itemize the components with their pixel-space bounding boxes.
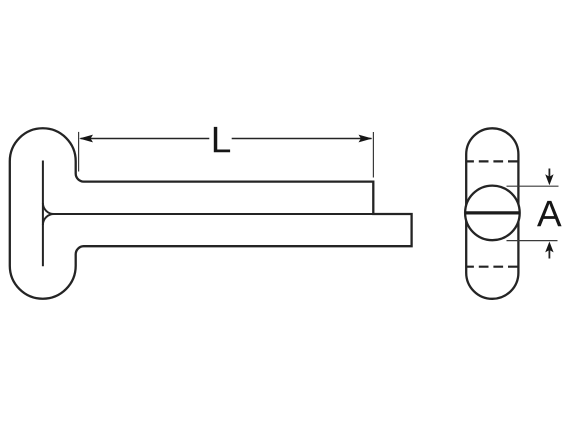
end view: top dashed tangent line bbox=[466, 160, 518, 162]
end view: slot line across circle bbox=[465, 211, 520, 214]
T-handle side view: outer outline (handle + shaft union) bbox=[10, 128, 412, 298]
dimension L: right extension line bbox=[372, 132, 374, 178]
handle centre vertical line bbox=[42, 161, 44, 267]
dimension L: line left segment bbox=[81, 138, 210, 140]
end view: shaft circle bbox=[465, 186, 520, 241]
dimension A: bottom arrow stem bbox=[548, 249, 550, 259]
dimension A: top arrowhead (pointing down) bbox=[545, 174, 553, 185]
end view: bottom dashed tangent line bbox=[466, 266, 518, 268]
dimension A: top arrow stem bbox=[548, 169, 550, 179]
dimension L: line right segment bbox=[232, 138, 372, 140]
shaft middle line with fork fillets bbox=[43, 203, 412, 225]
dimension A: top leader line bbox=[507, 185, 559, 187]
dimension L: left arrowhead bbox=[79, 135, 93, 143]
dimension A: bottom arrowhead (pointing up) bbox=[545, 242, 553, 253]
dimension L: right arrowhead bbox=[359, 135, 373, 143]
dimension L: left extension line bbox=[78, 132, 80, 172]
end view: handle capsule outline bbox=[466, 128, 518, 299]
dimension A: label bbox=[537, 201, 562, 226]
dimension L: label bbox=[214, 127, 230, 152]
dimension A: bottom leader line bbox=[507, 240, 558, 242]
